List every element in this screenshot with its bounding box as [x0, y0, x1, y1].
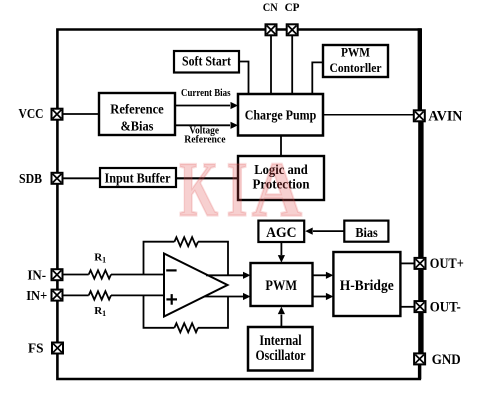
wire CP to Charge Pump — [291, 35, 293, 94]
wire Soft Start to Charge Pump — [239, 62, 249, 95]
wire Charge Pump to AVIN — [323, 114, 414, 116]
label FS — [28, 341, 44, 356]
svg-text:Soft Start: Soft Start — [182, 55, 231, 70]
wire Internal Oscillator to PWM (arrow) — [278, 307, 285, 327]
pin FS — [52, 343, 63, 354]
svg-text:PWM: PWM — [341, 45, 370, 60]
svg-text:AVIN: AVIN — [428, 108, 462, 124]
block Reference & Bias — [99, 93, 175, 135]
block Input Buffer — [100, 168, 176, 187]
svg-text:Charge Pump: Charge Pump — [245, 108, 317, 123]
svg-text:CP: CP — [285, 0, 300, 14]
label CN — [263, 0, 278, 14]
svg-text:K: K — [179, 146, 218, 233]
svg-text:IN-: IN- — [27, 268, 46, 283]
svg-text:VCC: VCC — [19, 107, 44, 122]
wire AGC to PWM (arrow) — [278, 242, 285, 263]
resistor R1 (IN+ line) — [89, 291, 111, 299]
label IN- — [27, 268, 46, 283]
pin VCC — [52, 109, 63, 120]
block Internal Oscillator — [248, 327, 313, 371]
pin IN- — [52, 269, 63, 280]
svg-text:CN: CN — [263, 0, 278, 14]
svg-text:Contorller: Contorller — [330, 60, 382, 75]
svg-text:FS: FS — [28, 341, 44, 356]
label OUT- — [430, 299, 461, 315]
wire op-amp output to PWM (lower arrow) — [204, 293, 251, 300]
pin OUT- — [415, 301, 426, 312]
block H-Bridge — [333, 252, 400, 316]
wire Charge Pump to Logic and Protection — [280, 136, 282, 157]
wire IN+ input line — [62, 294, 164, 296]
label GND — [432, 352, 461, 368]
wire outer boundary (IC border) — [57, 28, 421, 379]
svg-text:GND: GND — [432, 352, 461, 368]
block AGC — [258, 221, 304, 242]
svg-text:IN+: IN+ — [26, 289, 47, 304]
op-amp U1 — [164, 254, 228, 317]
svg-text:OUT+: OUT+ — [430, 256, 464, 272]
pin SDB — [52, 173, 63, 184]
block Charge Pump — [238, 94, 323, 136]
svg-text:PWM: PWM — [265, 278, 297, 294]
block PWM Controller — [323, 45, 388, 77]
label AVIN — [428, 108, 462, 124]
svg-text:Reference: Reference — [184, 134, 225, 146]
pin CP — [287, 24, 298, 35]
wire Bias to AGC (arrow) — [305, 228, 344, 235]
wire Reference&Bias to Charge Pump (Current Bias arrow) — [175, 102, 238, 109]
svg-text:Bias: Bias — [355, 226, 378, 241]
wire VCC to Reference&Bias — [62, 113, 99, 115]
watermark KIA — [179, 146, 302, 233]
wire PWM Controller to Charge Pump — [312, 62, 323, 94]
svg-text:Reference: Reference — [110, 102, 164, 117]
block Soft Start — [174, 51, 239, 73]
label R1 (lower) — [94, 305, 106, 318]
wire PWM to H-Bridge (lower arrow) — [313, 293, 334, 300]
pin IN+ — [52, 290, 63, 301]
wire H-Bridge to OUT+ — [400, 262, 415, 264]
svg-text:Current Bias: Current Bias — [181, 87, 231, 99]
svg-text:I: I — [227, 146, 248, 233]
wire H-Bridge to OUT- — [400, 306, 415, 308]
resistor feedback bottom — [174, 323, 198, 332]
label IN+ — [26, 289, 47, 304]
wire Input Buffer to Logic and Protection — [176, 177, 238, 179]
svg-text:SDB: SDB — [19, 172, 42, 187]
wire feedback top (with left/right rails) — [144, 242, 229, 275]
svg-text:Internal: Internal — [259, 333, 301, 349]
pin CN — [266, 24, 277, 35]
label R1 (upper) — [94, 251, 106, 264]
svg-text:&Bias: &Bias — [121, 119, 154, 134]
svg-text:A: A — [252, 146, 303, 233]
wire feedback bottom (with left/right rails) — [144, 295, 229, 327]
label OUT+ — [430, 256, 464, 272]
label CP — [285, 0, 300, 14]
wire Reference&Bias to Charge Pump (Voltage Reference arrow) — [175, 122, 238, 129]
svg-text:Oscillator: Oscillator — [255, 348, 306, 364]
svg-text:H-Bridge: H-Bridge — [340, 278, 395, 294]
resistor feedback top — [174, 237, 198, 246]
wire IN- input line — [62, 274, 164, 276]
block Logic and Protection — [238, 156, 324, 200]
pin OUT+ — [415, 258, 426, 269]
svg-text:OUT-: OUT- — [430, 299, 461, 315]
resistor R1 (IN- line) — [89, 270, 111, 278]
wire SDB to Input Buffer — [62, 177, 100, 179]
label Current Bias — [181, 87, 231, 99]
label Voltage Reference — [184, 125, 225, 146]
pin AVIN — [414, 110, 425, 121]
wire PWM to H-Bridge (upper arrow) — [313, 272, 334, 279]
wire CN to Charge Pump — [270, 35, 272, 94]
label VCC — [19, 107, 44, 122]
block Bias — [344, 221, 388, 242]
pin GND — [414, 353, 425, 364]
wire op-amp output to PWM (upper arrow) — [206, 272, 251, 279]
block PWM — [251, 263, 313, 306]
svg-text:Input Buffer: Input Buffer — [105, 172, 171, 187]
label SDB — [19, 172, 42, 187]
